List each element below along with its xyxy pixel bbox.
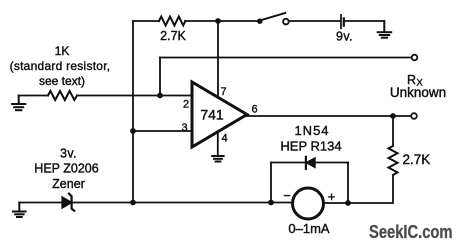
ground G1 top-left: [12, 96, 25, 111]
wire: resistor R1 to op-amp pin 2: [77, 95, 192, 97]
diode D2 1N54: [306, 157, 315, 169]
wire: top rail left segment: [133, 20, 159, 22]
wire: pin 4 down: [217, 132, 219, 156]
ground G2 top-right: [378, 21, 392, 38]
zener D1 HEP Z0206: [62, 194, 74, 211]
node Rx top terminal: [412, 55, 418, 61]
svg-text:HEP Z0206: HEP Z0206: [34, 162, 98, 176]
svg-text:9v.: 9v.: [336, 30, 353, 44]
svg-text:6: 6: [252, 104, 258, 116]
svg-text:+: +: [328, 189, 336, 204]
wire: pin 7 riser: [217, 21, 219, 98]
ground G3 op-amp: [212, 156, 223, 162]
resistor R3 2.7K vertical zigzag: [389, 146, 398, 175]
node junction dot pin3 bus: [130, 128, 136, 134]
wire: pin 6 output: [247, 115, 411, 117]
node Rx bottom terminal: [411, 113, 417, 119]
node junction dot output/R3: [390, 113, 396, 119]
svg-text:1K: 1K: [55, 44, 70, 58]
diode loop top wire: [271, 162, 348, 164]
resistor R2 2.7K zigzag: [159, 17, 185, 26]
node junction dot feedback/pin2: [157, 93, 163, 99]
svg-text:2.7K: 2.7K: [160, 29, 186, 43]
wire: pin 3: [133, 130, 192, 132]
battery B1 9v: [341, 15, 344, 28]
svg-text:HEP R134: HEP R134: [280, 139, 341, 154]
switch S1: [257, 13, 289, 24]
wire: battery to ground G2: [345, 20, 385, 22]
wire: R3 top lead: [392, 116, 394, 146]
svg-text:0–1mA: 0–1mA: [288, 221, 330, 236]
node junction dot loop right: [345, 200, 351, 206]
wire: ground G1 to resistor R1: [19, 95, 48, 97]
svg-text:−: −: [283, 188, 291, 203]
wire: feedback horizontal to Rx top terminal: [160, 57, 412, 59]
diode loop left vertical: [270, 163, 272, 203]
node junction dot loop left: [268, 200, 274, 206]
svg-text:Unknown: Unknown: [390, 85, 446, 100]
svg-text:3v.: 3v.: [60, 147, 77, 161]
resistor R1 1K zigzag: [48, 91, 77, 100]
ground G4 bottom-left: [13, 203, 26, 218]
op-amp U1 741 triangle: [192, 82, 247, 147]
svg-text:2.7K: 2.7K: [403, 152, 431, 167]
wire: left vertical bus x=133: [132, 21, 134, 203]
svg-text:3: 3: [182, 122, 188, 134]
wire: meter to loop right: [324, 202, 349, 204]
svg-text:SeekIC.com: SeekIC.com: [369, 222, 453, 242]
svg-text:7: 7: [221, 86, 227, 98]
svg-text:1N54: 1N54: [294, 123, 329, 138]
wire: top rail to switch: [185, 20, 258, 22]
meter M1 circle: [293, 188, 324, 219]
svg-text:741: 741: [200, 107, 224, 123]
wire: bottom rail from ground to meter: [19, 202, 292, 204]
svg-text:2: 2: [183, 99, 189, 111]
svg-text:see text): see text): [39, 74, 85, 88]
diode loop right vertical: [347, 163, 349, 204]
node junction dot at pin7 riser: [215, 18, 221, 24]
wire: R3 bottom lead and corner to meter loop: [348, 175, 393, 203]
wire: switch to battery: [289, 20, 340, 22]
svg-text:4: 4: [222, 133, 228, 145]
svg-text:Zener: Zener: [52, 177, 85, 191]
node junction dot bus/bottom rail: [130, 200, 136, 206]
svg-text:(standard resistor,: (standard resistor,: [10, 59, 111, 73]
wire: feedback up from pin2 node: [159, 58, 161, 96]
